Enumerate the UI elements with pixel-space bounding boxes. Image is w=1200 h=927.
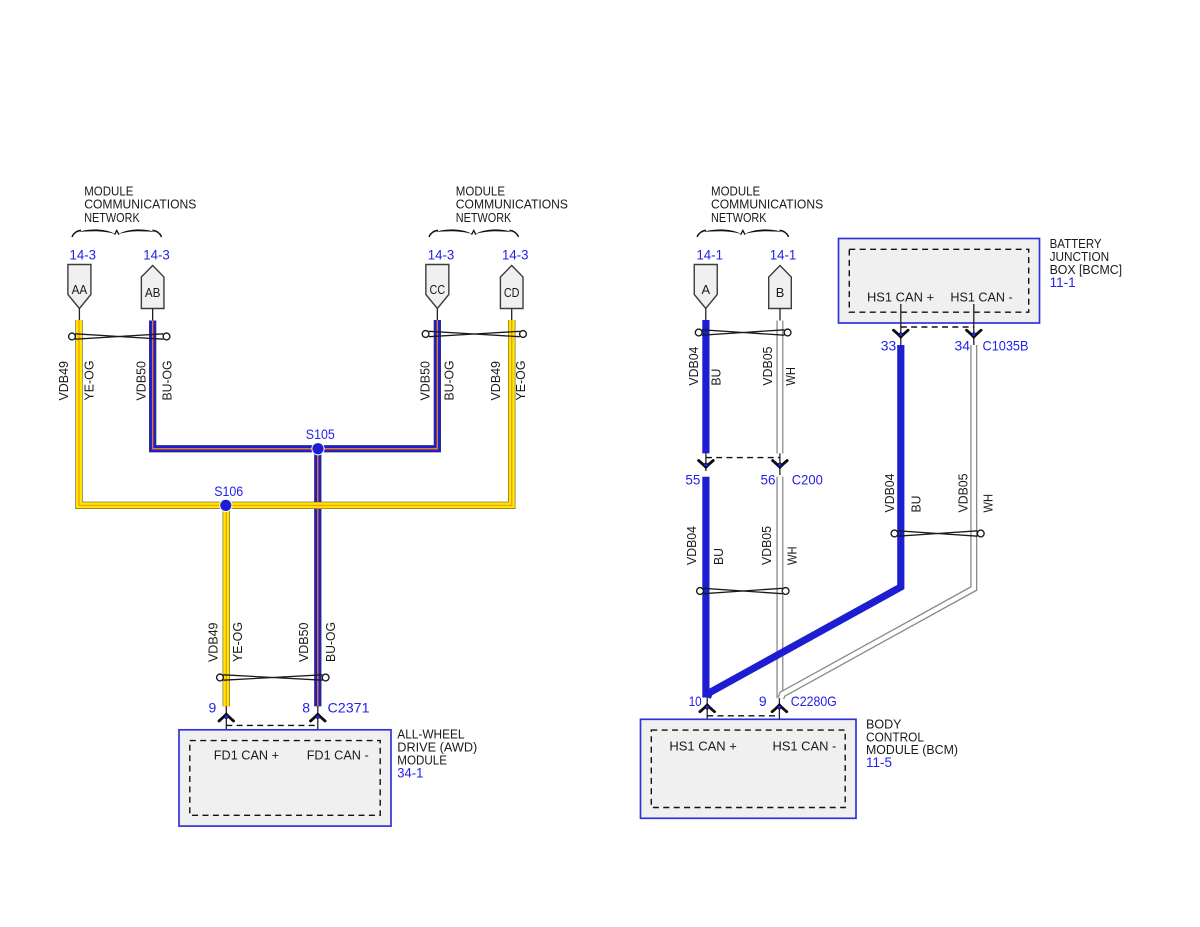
BODY CONTROL MODULE (BCM) box xyxy=(641,719,857,818)
wire VDB50 BU-OG from AB to S105 to CC xyxy=(153,320,438,449)
svg-text:YE-OG: YE-OG xyxy=(82,361,97,401)
svg-text:14-1: 14-1 xyxy=(770,246,797,262)
arrow into pin 34 xyxy=(967,330,982,337)
arrow into BCM pin 9 xyxy=(772,705,787,712)
BATTERY JUNCTION BOX [BCMC] xyxy=(839,239,1040,324)
wire VDB50 BU-OG from splice S105 down to pin 8 xyxy=(314,449,321,707)
wire VDB04 BU from A to C200 xyxy=(702,320,709,453)
connector pin A xyxy=(694,265,717,309)
svg-text:NETWORK: NETWORK xyxy=(456,210,512,225)
twisted pair symbol AA/AB xyxy=(69,333,76,340)
lead from HS1 CAN + (pin 33) xyxy=(900,304,902,345)
svg-text:VDB04: VDB04 xyxy=(686,347,701,386)
svg-text:VDB04: VDB04 xyxy=(684,526,699,565)
wire VDB05 WH from C200 to BCM pin 9 xyxy=(776,477,783,699)
svg-text:CC: CC xyxy=(430,282,446,297)
svg-text:WH: WH xyxy=(783,367,798,386)
splice S105 xyxy=(311,442,324,455)
dashed link pins 10-9 xyxy=(707,715,779,717)
svg-text:VDB49: VDB49 xyxy=(206,623,221,663)
connector pin B xyxy=(769,266,792,309)
svg-text:HS1 CAN -: HS1 CAN - xyxy=(773,739,837,754)
svg-text:C1035B: C1035B xyxy=(983,338,1029,354)
svg-text:34: 34 xyxy=(955,338,971,354)
svg-text:14-3: 14-3 xyxy=(428,246,455,262)
arrow into pin 55 xyxy=(699,461,714,468)
svg-text:CD: CD xyxy=(504,285,520,300)
svg-text:VDB50: VDB50 xyxy=(134,361,149,401)
svg-text:11-1: 11-1 xyxy=(1050,274,1076,290)
splice S106 xyxy=(219,499,232,512)
twisted pair symbol pins 33/34 xyxy=(891,530,898,537)
svg-text:FD1 CAN +: FD1 CAN + xyxy=(214,747,279,762)
svg-text:BU: BU xyxy=(909,496,924,513)
svg-text:9: 9 xyxy=(759,693,767,709)
svg-text:YE-OG: YE-OG xyxy=(230,622,245,662)
ALL-WHEEL DRIVE (AWD) MODULE box xyxy=(179,730,391,826)
dashed link pins 9-8 xyxy=(226,724,317,726)
lead from CC xyxy=(436,309,438,321)
dashed link pins 55-56 xyxy=(706,457,780,459)
svg-text:VDB05: VDB05 xyxy=(759,526,774,565)
svg-text:14-1: 14-1 xyxy=(696,246,723,262)
arrow into pin 56 xyxy=(773,461,788,468)
svg-text:VDB49: VDB49 xyxy=(488,361,503,401)
svg-text:56: 56 xyxy=(761,472,776,488)
lead into BCM pin 9 xyxy=(778,698,780,731)
arrow into pin 33 xyxy=(894,330,909,337)
twisted pair symbol A/B xyxy=(695,329,702,336)
svg-text:33: 33 xyxy=(881,338,897,354)
svg-text:14-3: 14-3 xyxy=(143,246,170,262)
lead into BCM pin 10 xyxy=(706,698,708,731)
svg-text:VDB05: VDB05 xyxy=(760,347,775,386)
lead from A xyxy=(705,309,707,321)
twisted pair symbol CC/CD xyxy=(422,331,429,338)
svg-text:14-3: 14-3 xyxy=(502,246,529,262)
svg-text:34-1: 34-1 xyxy=(397,764,423,780)
svg-text:VDB50: VDB50 xyxy=(417,361,432,401)
wire VDB49 YE-OG from AA to S106 to CD xyxy=(79,320,512,505)
svg-text:NETWORK: NETWORK xyxy=(711,210,767,225)
svg-text:VDB04: VDB04 xyxy=(882,474,897,513)
svg-text:BU: BU xyxy=(711,548,726,565)
svg-text:BU-OG: BU-OG xyxy=(442,361,457,401)
dashed link pins 33-34 xyxy=(901,326,974,328)
svg-text:C200: C200 xyxy=(792,472,823,488)
svg-text:WH: WH xyxy=(981,494,996,513)
lead into AWD pin 9 xyxy=(225,706,227,740)
arrow into BCM pin 10 xyxy=(700,705,715,712)
arrow into pin 9 xyxy=(219,714,234,721)
lead from HS1 CAN - (pin 34) xyxy=(973,304,975,345)
lead from AA xyxy=(78,309,80,321)
svg-text:NETWORK: NETWORK xyxy=(84,210,140,225)
svg-text:VDB49: VDB49 xyxy=(56,361,71,401)
wire VDB04 BU from C200 to BCM pin 10 xyxy=(702,477,709,698)
svg-text:10: 10 xyxy=(689,693,702,709)
brace (left network) xyxy=(72,230,81,237)
arrow into pin 8 xyxy=(311,714,326,721)
svg-text:14-3: 14-3 xyxy=(70,246,97,262)
svg-text:S106: S106 xyxy=(214,483,243,499)
connector pin CD xyxy=(500,266,523,309)
svg-text:BU-OG: BU-OG xyxy=(159,361,174,401)
twisted pair symbol below C200 xyxy=(697,588,704,595)
lead into AWD pin 8 xyxy=(317,706,319,740)
wire VDB05 WH from B to C200 xyxy=(776,321,783,454)
svg-text:WH: WH xyxy=(785,547,800,566)
svg-text:BU-OG: BU-OG xyxy=(323,622,338,662)
svg-text:HS1 CAN +: HS1 CAN + xyxy=(669,739,737,754)
svg-text:HS1 CAN +: HS1 CAN + xyxy=(867,289,934,304)
svg-text:AA: AA xyxy=(72,282,88,297)
wire VDB04 BU from pin 33 to BCM pin 10 (diagonal) xyxy=(708,345,901,698)
connector pin CC xyxy=(426,265,449,309)
lead from AB xyxy=(152,309,154,321)
svg-text:FD1 CAN -: FD1 CAN - xyxy=(307,747,369,762)
connector pin AB xyxy=(141,266,164,309)
lead C200 pin 55 xyxy=(705,453,707,471)
wire VDB49 YE-OG from splice S106 down to pin 9 xyxy=(223,505,230,706)
brace (middle network) xyxy=(429,230,438,237)
svg-text:HS1 CAN -: HS1 CAN - xyxy=(950,289,1012,304)
svg-text:C2280G: C2280G xyxy=(791,693,837,709)
svg-text:YE-OG: YE-OG xyxy=(513,361,528,401)
twisted pair symbol above C2371 xyxy=(217,674,224,681)
svg-text:S105: S105 xyxy=(306,426,335,442)
svg-text:9: 9 xyxy=(209,699,217,715)
svg-text:AB: AB xyxy=(145,285,161,300)
svg-text:A: A xyxy=(701,282,710,297)
svg-text:B: B xyxy=(776,285,785,300)
lead from B xyxy=(779,309,781,321)
svg-text:VDB50: VDB50 xyxy=(296,623,311,663)
brace (right network) xyxy=(697,230,706,237)
svg-text:11-5: 11-5 xyxy=(866,754,892,770)
svg-text:BU: BU xyxy=(709,369,724,386)
connector pin AA xyxy=(68,265,91,309)
svg-text:VDB05: VDB05 xyxy=(956,474,971,513)
svg-text:C2371: C2371 xyxy=(328,699,370,715)
svg-text:55: 55 xyxy=(685,472,700,488)
lead C200 pin 56 xyxy=(779,453,781,475)
svg-text:8: 8 xyxy=(302,699,310,715)
wire VDB05 WH from pin 34 to BCM pin 9 (diagonal) xyxy=(781,345,974,698)
lead from CD xyxy=(511,309,513,321)
